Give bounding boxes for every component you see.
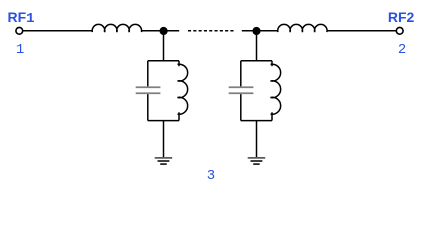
svg-text:2: 2 bbox=[398, 42, 406, 58]
svg-text:3: 3 bbox=[207, 168, 215, 183]
svg-text:RF2: RF2 bbox=[388, 9, 415, 25]
svg-text:RF1: RF1 bbox=[8, 9, 35, 27]
svg-text:1: 1 bbox=[16, 42, 24, 58]
